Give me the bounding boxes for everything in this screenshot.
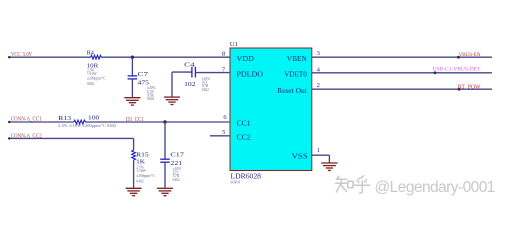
svg-text:1K: 1K <box>136 158 145 165</box>
pin 1 VSS <box>292 147 320 161</box>
wire VDD net, left segment from port to R4 <box>8 56 91 58</box>
svg-text:1: 1 <box>317 147 320 154</box>
pin 3 VBEN <box>287 50 321 63</box>
svg-text:0402: 0402 <box>87 82 94 86</box>
svg-text:SOP-8: SOP-8 <box>231 181 241 185</box>
svg-text:R4: R4 <box>87 49 95 56</box>
svg-text:0402: 0402 <box>202 88 209 92</box>
ground under C17 <box>157 188 173 195</box>
svg-text:±200ppm/°C: ±200ppm/°C <box>87 77 106 81</box>
svg-text:VBUS-EN: VBUS-EN <box>459 52 481 58</box>
svg-text:8: 8 <box>222 51 226 58</box>
net label D3_CC1 <box>126 117 144 123</box>
junction at C17 tap <box>163 120 166 123</box>
wire IC pin 1 VSS to ground <box>312 155 330 163</box>
ground under C7 <box>124 98 140 105</box>
svg-text:2.5% 1/16W ±200ppm/°C 0402: 2.5% 1/16W ±200ppm/°C 0402 <box>58 124 116 128</box>
svg-text:VBEN: VBEN <box>287 54 307 63</box>
svg-text:0402: 0402 <box>147 97 154 101</box>
wire R15 to ground <box>133 161 135 188</box>
svg-text:1/16W: 1/16W <box>136 169 146 173</box>
wire IC pin 2 to BT_POW <box>312 88 492 90</box>
resistor R4 <box>87 49 106 86</box>
svg-text:Reset Out: Reset Out <box>277 86 307 95</box>
pin 7 PDLDO <box>222 66 264 78</box>
IC pin 5 stub <box>210 135 230 137</box>
value label LDR6028 <box>231 174 262 185</box>
svg-text:CC1: CC1 <box>237 119 251 128</box>
pin 2 Reset Out <box>277 82 320 95</box>
ground under R15 <box>126 188 142 195</box>
svg-text:6: 6 <box>223 114 227 121</box>
capacitor C7 <box>128 71 156 101</box>
junction anchor USB-C1-VBUS-DET <box>434 71 437 74</box>
svg-text:0402: 0402 <box>136 179 143 183</box>
pin 4 VDET0 <box>284 66 320 78</box>
svg-text:2: 2 <box>317 82 320 89</box>
svg-text:USB-C1-VBUS-DET: USB-C1-VBUS-DET <box>433 67 481 73</box>
wire IC pin 3 to VBUS-EN <box>312 56 492 58</box>
junction anchor BT_POW <box>458 88 461 91</box>
svg-text:VCC_5.0V: VCC_5.0V <box>11 52 33 58</box>
svg-text:C7: C7 <box>138 71 150 78</box>
svg-text:5: 5 <box>222 129 226 136</box>
net label USB-C1-VBUS-DET <box>433 67 481 73</box>
wire C7 upper stem <box>131 57 133 75</box>
pin 6 CC1 <box>223 114 250 128</box>
resistor R15 <box>132 150 156 183</box>
svg-text:VDET0: VDET0 <box>284 69 307 78</box>
watermark text <box>375 179 495 196</box>
svg-text:0402: 0402 <box>173 178 180 182</box>
capacitor C17 <box>160 152 185 182</box>
pin 5 CC2 <box>222 129 251 142</box>
wire VDD net, R4 to IC pin 8 <box>102 56 230 58</box>
net label VBUS-EN <box>459 52 481 58</box>
svg-text:102: 102 <box>184 81 196 88</box>
svg-text:VSS: VSS <box>292 152 308 161</box>
svg-text:±200ppm/°C: ±200ppm/°C <box>136 174 155 178</box>
wire CC1 net, R13 to IC pin 6 <box>86 121 230 123</box>
wire C17 upper stem <box>164 122 166 159</box>
svg-text:CC2: CC2 <box>237 133 251 142</box>
svg-text:R13: R13 <box>58 115 71 122</box>
ground under C4 <box>164 97 180 104</box>
ground at VSS <box>321 163 337 170</box>
wire CC2 net to R15 <box>8 137 134 150</box>
net label CONN-A_CC1 <box>11 117 42 123</box>
pin 8 VDD <box>222 51 255 63</box>
capacitor C4 <box>184 61 210 92</box>
svg-text:3: 3 <box>317 50 321 57</box>
watermark zhihu logo glyphs <box>336 176 370 193</box>
net label VCC_5.0V <box>11 52 33 58</box>
svg-text:C4: C4 <box>184 61 196 68</box>
resistor R13 <box>58 114 116 128</box>
svg-text:BT_POW: BT_POW <box>458 85 481 91</box>
svg-text:U1: U1 <box>230 41 238 48</box>
svg-text:VDD: VDD <box>237 54 255 63</box>
wire C17 lower stem <box>164 162 166 188</box>
wire IC pin 4 to USB-C1-VBUS-DET <box>312 72 492 74</box>
wire C7 lower stem <box>131 79 133 97</box>
junction at C7 tap <box>131 56 134 59</box>
net label CONN-A_CC2 <box>11 134 42 140</box>
junction anchor VBUS-EN <box>457 56 460 59</box>
svg-text:100: 100 <box>88 114 100 121</box>
net label BT_POW <box>458 85 481 91</box>
wire CC1 net, left segment to R13 <box>8 121 74 123</box>
svg-text:PDLDO: PDLDO <box>237 69 264 78</box>
wire C4 left leg to ground <box>172 72 192 97</box>
wire C4 to IC pin 7 <box>195 72 230 74</box>
IC U1 body <box>230 48 312 171</box>
svg-text:C17: C17 <box>170 152 185 159</box>
designator U1 <box>230 41 238 48</box>
svg-text:1/16W: 1/16W <box>87 72 97 76</box>
svg-text:@Legendary-0001: @Legendary-0001 <box>375 179 495 196</box>
